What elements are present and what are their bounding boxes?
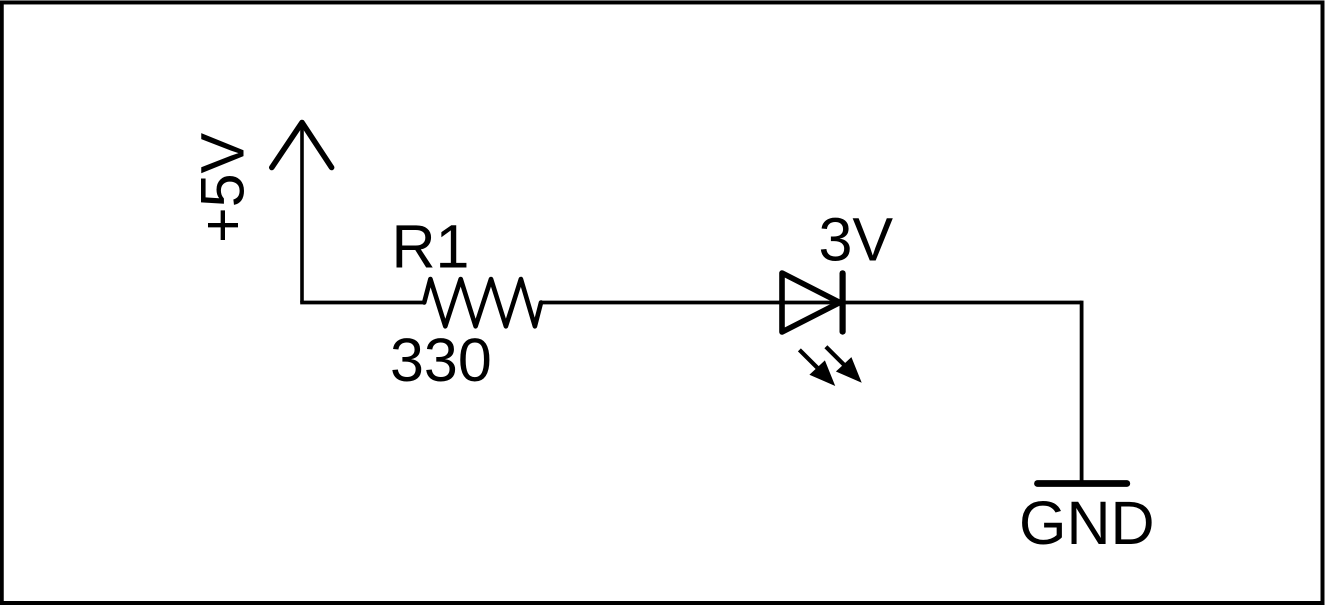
resistor R1 zigzag: [424, 279, 541, 326]
LED light arrow 1: [799, 350, 834, 385]
wire: resistor to LED and through to right corner: [541, 301, 1082, 305]
wire: right vertical down to ground: [1080, 301, 1084, 482]
LED D1 triangle (anode): [782, 273, 840, 332]
LED light arrow 2: [826, 347, 861, 382]
wire: left horizontal to resistor: [300, 301, 424, 305]
svg-text:3V: 3V: [819, 206, 894, 274]
svg-text:330: 330: [390, 326, 492, 394]
svg-text:+5V: +5V: [189, 132, 257, 243]
power symbol +5V arrow: [272, 123, 332, 168]
svg-text:GND: GND: [1019, 489, 1155, 557]
LED cathode bar: [839, 273, 845, 331]
svg-text:R1: R1: [392, 213, 470, 281]
ground bar: [1038, 480, 1127, 487]
wire: power vertical: [300, 124, 304, 303]
